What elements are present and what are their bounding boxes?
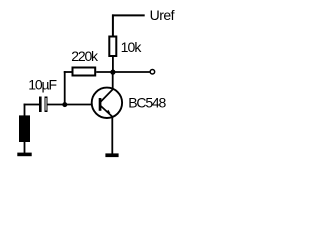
ground (right) [105,153,118,157]
transistor BC548 collector stroke [100,89,112,102]
transistor BC548 emitter stroke [100,106,113,118]
junction: collector node [110,70,115,75]
wire: vertical from capacitor corner down to microphone [24,104,26,116]
output terminal open circle [150,70,155,75]
transistor BC548 circle [92,88,122,118]
wire: capacitor left lead [24,104,39,106]
ground (left) [17,153,31,157]
junction: base node [62,102,67,107]
wire: 220k left lead [64,71,72,73]
wire: vertical from Uref corner to 10k top [112,14,114,36]
capacitor 10µF right plate (hollow) [44,97,47,112]
svg-text:BC548: BC548 [128,95,166,111]
microphone element (filled body) [19,115,30,142]
wire: vertical from 220k left corner down to base node [64,71,66,104]
capacitor 10µF left plate (filled) [39,97,42,113]
wire: microphone to ground [24,142,26,154]
wire: horizontal rail 220k right lead to output terminal [96,71,150,73]
svg-text:10µF: 10µF [28,76,56,92]
svg-text:Uref: Uref [150,7,175,23]
resistor 220k body [73,68,96,76]
svg-text:10k: 10k [121,39,143,55]
wire: Uref horizontal lead [112,14,145,16]
transistor BC548 base bar [99,98,102,111]
resistor 10k body [109,37,116,57]
transistor BC548 emitter arrow [106,110,110,113]
wire: base rail from capacitor to transistor [47,104,92,106]
svg-text:220k: 220k [71,48,99,64]
wire: collector vertical from junction to transistor [112,72,114,89]
wire: emitter vertical to ground [111,118,113,155]
wire: 10k bottom lead to junction [112,57,114,72]
